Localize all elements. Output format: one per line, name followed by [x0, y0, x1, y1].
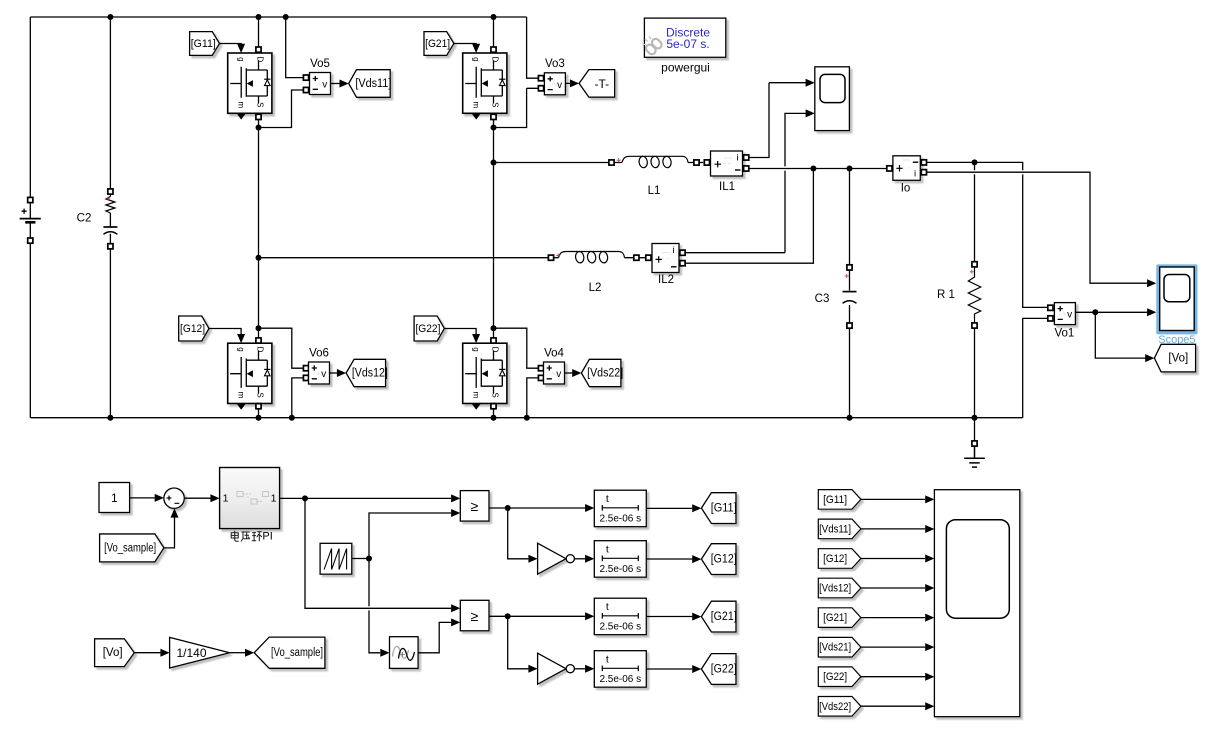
svg-text:1/140: 1/140: [177, 646, 207, 660]
junction Vo1 out: [1092, 309, 1098, 315]
logic NOT gate 2: [538, 653, 566, 684]
wire sum to PI: [184, 497, 210, 499]
port Vo1 -: [1048, 316, 1053, 321]
wire Vo_sample to sum: [164, 517, 175, 548]
svg-text:i: i: [672, 245, 674, 256]
inductor L1: [622, 156, 688, 162]
svg-text:1: 1: [271, 492, 277, 504]
port Vo3 +: [538, 76, 543, 81]
ground: [964, 446, 985, 467]
goto tag Vds22: [581, 359, 621, 386]
svg-text:L2: L2: [589, 282, 602, 294]
svg-text:[Vds11]: [Vds11]: [819, 523, 851, 535]
svg-text:[Vds22]: [Vds22]: [587, 368, 623, 380]
svg-text:[G12]: [G12]: [180, 323, 205, 335]
arrow gate G11: [237, 44, 245, 53]
wire Vo3 plus: [527, 17, 539, 78]
port MOSFET drain: [491, 338, 496, 343]
junction Vo6 minus bus: [289, 415, 295, 421]
wire comp1 branch to NOT1: [508, 508, 529, 559]
wire C2 branch: [109, 17, 111, 418]
polarity mark L2: [556, 254, 560, 258]
arrow Scope5 in2: [1147, 308, 1156, 316]
node phase leg: [491, 125, 497, 131]
port L2 right: [634, 255, 639, 260]
logic NOT gate 1: [538, 543, 566, 574]
wire Vo1 out: [1075, 311, 1147, 313]
arrow comp2 in1: [451, 604, 460, 612]
from tag G11: [190, 32, 220, 56]
port L1 right: [694, 160, 699, 165]
arrow goto G21: [692, 613, 701, 621]
svg-text:Vo5: Vo5: [310, 58, 330, 70]
svg-text:IL1: IL1: [719, 181, 735, 193]
wire PI out row1: [280, 497, 451, 499]
wire L1 row: [494, 162, 704, 164]
arrow goto Vo_sample: [245, 649, 254, 657]
DC voltage source battery: [20, 218, 41, 220]
capacitor C3 plates: [843, 291, 857, 293]
polarity mark C2: [106, 197, 110, 201]
svg-text:i: i: [914, 168, 916, 179]
arrow delay2 in: [585, 555, 594, 563]
current measurement IL1: [711, 151, 743, 176]
arrow scope8 in4: [925, 584, 934, 592]
port DC source -: [28, 238, 33, 243]
port IL2 -: [680, 261, 685, 266]
svg-text:[Vo]: [Vo]: [1168, 353, 1188, 365]
arrow gate G12: [237, 334, 245, 343]
wire Vo3 out: [565, 82, 570, 84]
port MOSFET drain: [491, 47, 496, 52]
arrow into sum minus: [171, 508, 179, 517]
svg-text:[G22]: [G22]: [415, 323, 440, 335]
junction Vo4 minus bus: [524, 415, 530, 421]
port L2 left: [548, 255, 553, 260]
junction C3 tap: [847, 166, 853, 172]
svg-text:[Vds22]: [Vds22]: [819, 701, 851, 713]
svg-text:powergui: powergui: [661, 61, 710, 75]
wire delay1 to G11: [646, 507, 692, 509]
arrow scope8 in1: [925, 495, 934, 503]
arrow into sum: [155, 494, 164, 502]
arrow comp2 in2: [451, 618, 460, 626]
junction C3 bus: [847, 415, 853, 421]
wire Vo1 to Vo tag: [1095, 312, 1146, 358]
port Io +: [887, 166, 892, 171]
wire delay2 to G12: [646, 558, 692, 560]
from tag G22: [414, 316, 444, 341]
svg-text:[Vo]: [Vo]: [103, 647, 123, 659]
junction L2 tap: [256, 255, 262, 261]
wire DC source branch: [29, 17, 31, 418]
port Vo6 +: [303, 366, 308, 371]
wire NOT2 out: [574, 668, 585, 670]
transistor MOSFET12: [228, 343, 272, 410]
wire [G12] to scope: [861, 558, 925, 560]
transport delay phase shift block: [390, 637, 419, 669]
wire delay3 to G21: [646, 616, 692, 618]
arrow gain in: [160, 649, 169, 657]
resistor R1 zigzag: [968, 267, 980, 323]
wire NOT1 out: [574, 558, 585, 560]
junction top rail: [491, 14, 497, 20]
arrow NOT1 in: [528, 555, 537, 563]
junction comp1 out: [505, 505, 511, 511]
arrow delay1 in: [585, 504, 594, 512]
arrow comp1 in2: [451, 509, 460, 517]
wire IL1 outputs: [749, 83, 886, 169]
svg-text:Io: Io: [901, 183, 911, 195]
scope Scope5: [1160, 267, 1195, 331]
wire C3 branch: [849, 169, 851, 418]
svg-text:C3: C3: [815, 293, 830, 305]
wire sawtooth out: [352, 558, 369, 560]
wire scope in2 vertical: [785, 113, 806, 252]
wire Vo6 minus: [292, 378, 303, 418]
svg-text:[Vds21]: [Vds21]: [819, 642, 851, 654]
wire leg2 vertical: [493, 17, 495, 418]
from tag Vo_sample: [100, 534, 164, 562]
node lower drain: [256, 325, 262, 331]
wire [Vds22] to scope: [861, 705, 925, 707]
voltage measurement Vo1: [1054, 303, 1075, 325]
svg-text:i: i: [736, 152, 738, 163]
arrow into phase delay: [380, 649, 389, 657]
port IL1 i: [744, 155, 749, 160]
port Vo6 -: [303, 375, 308, 380]
port Vo1 +: [1048, 305, 1053, 310]
wire sawtooth to delay block: [369, 559, 380, 653]
node phase leg: [256, 125, 262, 131]
wire Vo1 minus: [1023, 318, 1048, 417]
wire leg1 vertical: [258, 17, 260, 418]
port Vo5 -: [303, 87, 308, 92]
port IL1 +: [704, 160, 709, 165]
from tag [Vds12] monitor: [818, 578, 861, 598]
polarity mark R1: [970, 270, 974, 274]
from tag [Vds21] monitor: [818, 637, 861, 657]
svg-text:[G22]: [G22]: [823, 671, 847, 683]
voltage measurement Vo3: [544, 73, 565, 95]
wire [Vds21] to scope: [861, 646, 925, 648]
goto tag Vds11: [349, 70, 391, 98]
arrow goto G12: [692, 555, 701, 563]
junction bottom bus: [256, 415, 262, 421]
goto tag Vo: [1154, 344, 1195, 372]
from tag G12: [179, 316, 209, 341]
junction C2 bottom bus: [107, 415, 113, 421]
arrow scope8 in5: [925, 614, 934, 622]
svg-text:1: 1: [223, 492, 229, 504]
port Io i: [921, 170, 926, 175]
wire Io minus to Vo1 plus: [927, 162, 1048, 307]
wire scope in1: [769, 82, 806, 84]
svg-text:Vo1: Vo1: [1054, 327, 1074, 339]
wire Vo to gain: [134, 652, 160, 654]
junction top rail Vo5 tap: [283, 14, 289, 20]
wire gain out: [230, 652, 245, 654]
wire top rail: [30, 16, 526, 18]
from tag Vo: [95, 639, 135, 667]
wire comp1 out: [489, 507, 585, 509]
wire Vo5 plus: [286, 17, 304, 78]
port ground: [972, 441, 977, 446]
port IL1 -: [744, 166, 749, 171]
label voltage loop PI (CJK strokes): [231, 531, 262, 542]
from tag [G12] monitor: [818, 549, 861, 569]
port MOSFET source: [256, 114, 261, 119]
port R1 top: [972, 262, 977, 267]
capacitor C2 series resistance zigzag: [106, 197, 115, 214]
arrow Vds22: [572, 369, 581, 377]
wire R1 branch: [974, 162, 976, 441]
junction bottom bus: [491, 415, 497, 421]
svg-text:[G22]: [G22]: [711, 664, 737, 676]
wire gate G22: [444, 329, 476, 335]
junction sawtooth out: [366, 556, 372, 562]
relational operator comparator 2: [460, 600, 489, 631]
wire Vo5 out: [331, 83, 341, 85]
transistor MOSFET11: [228, 53, 272, 120]
wire Vo5 minus: [259, 90, 304, 128]
junction L1 tap: [491, 160, 497, 166]
arrow scope in2: [806, 109, 815, 117]
goto tag Vo_sample: [254, 637, 325, 668]
svg-text:[G11]: [G11]: [191, 38, 216, 50]
node lower drain: [491, 325, 497, 331]
junction top rail: [256, 14, 262, 20]
port Vo4 +: [538, 366, 543, 371]
arrow goto Vo: [1145, 354, 1154, 362]
arrow delay4 in: [585, 665, 594, 673]
powergui block: [644, 18, 725, 57]
wire bottom bus: [30, 417, 1022, 419]
arrow scope8 in7: [925, 673, 934, 681]
port C3 top: [847, 265, 852, 270]
port Vo4 -: [538, 375, 543, 380]
sum junction: [164, 488, 184, 508]
transport delay block 2.5e-06 s row4: [594, 651, 646, 688]
port MOSFET source: [491, 114, 496, 119]
port Vo5 +: [303, 75, 308, 80]
svg-text:[G21]: [G21]: [823, 612, 847, 624]
transistor MOSFET21: [463, 53, 507, 120]
goto tag G11: [701, 493, 736, 524]
wire [G21] to scope: [861, 617, 925, 619]
polarity mark C3: [845, 274, 849, 278]
arrow into PI: [210, 494, 219, 502]
wire Io i to Scope5: [927, 172, 1148, 283]
transport delay block 2.5e-06 s row1: [594, 490, 646, 527]
arrow scope in1: [806, 79, 815, 87]
wire gate G21: [454, 43, 476, 45]
transistor MOSFET22: [463, 343, 507, 410]
subsystem voltage loop PI: [220, 468, 280, 529]
junction R1 tap: [972, 159, 978, 165]
wire comp2 branch to NOT2: [508, 616, 529, 669]
port R1 bottom: [972, 323, 977, 328]
polarity mark L1: [617, 158, 621, 162]
svg-text:[Vds11]: [Vds11]: [355, 78, 391, 90]
svg-text:-T-: -T-: [594, 77, 609, 91]
goto tag Vds12: [346, 359, 386, 386]
arrow scope8 in3: [925, 555, 934, 563]
wire [G11] to scope: [861, 498, 925, 500]
svg-text:L1: L1: [648, 185, 661, 197]
arrow Vds11: [340, 80, 349, 88]
wire Vo3 minus: [494, 88, 540, 127]
arrow NOT2 in: [528, 665, 537, 673]
wire phase delay to comp2 in2: [418, 622, 451, 652]
wire gate G12: [209, 329, 241, 335]
svg-text:1: 1: [111, 491, 118, 505]
transport delay block 2.5e-06 s row3: [594, 598, 646, 635]
junction R1 ground bus: [972, 415, 978, 421]
constant block 1: [99, 483, 130, 513]
wire [Vds11] to scope: [861, 528, 925, 530]
voltage measurement Vo6: [309, 362, 330, 384]
transport delay block 2.5e-06 s row2: [594, 541, 646, 578]
junction PI out: [302, 495, 308, 501]
arrow goto G22: [692, 665, 701, 673]
wire Vo4 out: [565, 372, 573, 374]
goto tag G21: [701, 601, 736, 632]
wire comp2 out: [489, 615, 585, 617]
wire PI out to comp2: [305, 498, 451, 608]
wire sawtooth to comp1 in2: [369, 513, 451, 559]
arrow scope8 in6: [925, 643, 934, 651]
wire IL2 outputs: [685, 169, 813, 264]
svg-text:R 1: R 1: [937, 289, 955, 301]
arrow comp1 in1: [451, 494, 460, 502]
arrow gate G21: [472, 44, 480, 53]
svg-text:Vo4: Vo4: [544, 348, 564, 360]
arrow -T-: [570, 79, 579, 87]
inductor L2: [559, 252, 625, 258]
port MOSFET source: [491, 404, 496, 409]
port Io -: [921, 160, 926, 165]
scope Scope (8 inputs): [934, 490, 1019, 717]
scope Scope5 selected highlight: [1156, 264, 1197, 334]
wire Vo4 minus: [527, 378, 539, 418]
junction C2 top rail: [107, 14, 113, 20]
port IL2 +: [646, 255, 651, 260]
svg-text:[Vo_sample]: [Vo_sample]: [271, 647, 323, 659]
junction comp2 out: [505, 613, 511, 619]
voltage measurement Vo5: [310, 73, 331, 95]
powergui broken link icon: [644, 37, 663, 56]
port MOSFET drain: [256, 47, 261, 52]
sawtooth generator block: [320, 543, 352, 574]
wire Vo6 plus: [259, 328, 304, 368]
from tag [Vds11] monitor: [818, 519, 861, 539]
goto tag G12: [701, 544, 736, 575]
scope Scope1: [815, 67, 850, 131]
port DC source +: [28, 197, 33, 202]
arrow Scope5 in1: [1147, 279, 1156, 287]
svg-text:[G12]: [G12]: [711, 554, 737, 566]
current measurement Io: [893, 156, 920, 181]
wire Vo6 out: [330, 372, 338, 374]
relational operator comparator 1: [460, 491, 489, 521]
from tag G21: [424, 32, 454, 56]
arrow Vds12: [337, 369, 346, 377]
wire gate G11: [220, 43, 242, 45]
svg-text:5e-07 s.: 5e-07 s.: [666, 37, 709, 51]
port Vo3 -: [538, 86, 543, 91]
arrow gate G22: [472, 334, 480, 343]
svg-text:Vo6: Vo6: [309, 348, 329, 360]
from tag [G21] monitor: [818, 608, 861, 628]
svg-text:[G11]: [G11]: [823, 494, 847, 506]
svg-text:Vo3: Vo3: [545, 58, 565, 70]
svg-text:[G21]: [G21]: [711, 611, 737, 623]
arrow delay3 in: [585, 612, 594, 620]
svg-text:[Vo_sample]: [Vo_sample]: [104, 542, 156, 554]
svg-text:PI: PI: [262, 530, 272, 542]
port C2 bottom: [108, 244, 113, 249]
from tag [G11] monitor: [818, 490, 861, 510]
svg-text:[G11]: [G11]: [711, 503, 737, 515]
svg-text:[G12]: [G12]: [823, 553, 847, 565]
svg-text:[Vds12]: [Vds12]: [819, 583, 851, 595]
junction IL2 return: [810, 166, 816, 172]
port MOSFET drain: [256, 338, 261, 343]
from tag [G22] monitor: [818, 667, 861, 687]
current measurement IL2: [652, 244, 679, 273]
port L1 left: [609, 160, 614, 165]
port MOSFET source: [256, 404, 261, 409]
wire Vo4 plus: [494, 328, 539, 368]
svg-text:[G21]: [G21]: [425, 38, 450, 50]
gain block 1/140: [170, 637, 230, 668]
arrow scope8 in2: [925, 525, 934, 533]
wire [G22] to scope: [861, 676, 925, 678]
wire constant to sum: [130, 497, 155, 499]
wire [Vds12] to scope: [861, 587, 925, 589]
voltage measurement Vo4: [544, 362, 565, 384]
arrow goto G11: [692, 504, 701, 512]
svg-text:C2: C2: [77, 212, 92, 224]
capacitor C2 plates: [103, 226, 117, 228]
from tag [Vds22] monitor: [818, 697, 861, 717]
wire L2 row: [259, 257, 646, 259]
goto tag G22: [701, 654, 736, 685]
port IL2 i: [680, 250, 685, 255]
goto tag -T-: [579, 70, 615, 98]
port C2 top: [108, 189, 113, 194]
port C3 bottom: [847, 323, 852, 328]
svg-text:[Vds12]: [Vds12]: [352, 368, 388, 380]
svg-text:IL2: IL2: [658, 274, 674, 286]
wire delay4 to G22: [646, 668, 692, 670]
arrow scope8 in8: [925, 702, 934, 710]
